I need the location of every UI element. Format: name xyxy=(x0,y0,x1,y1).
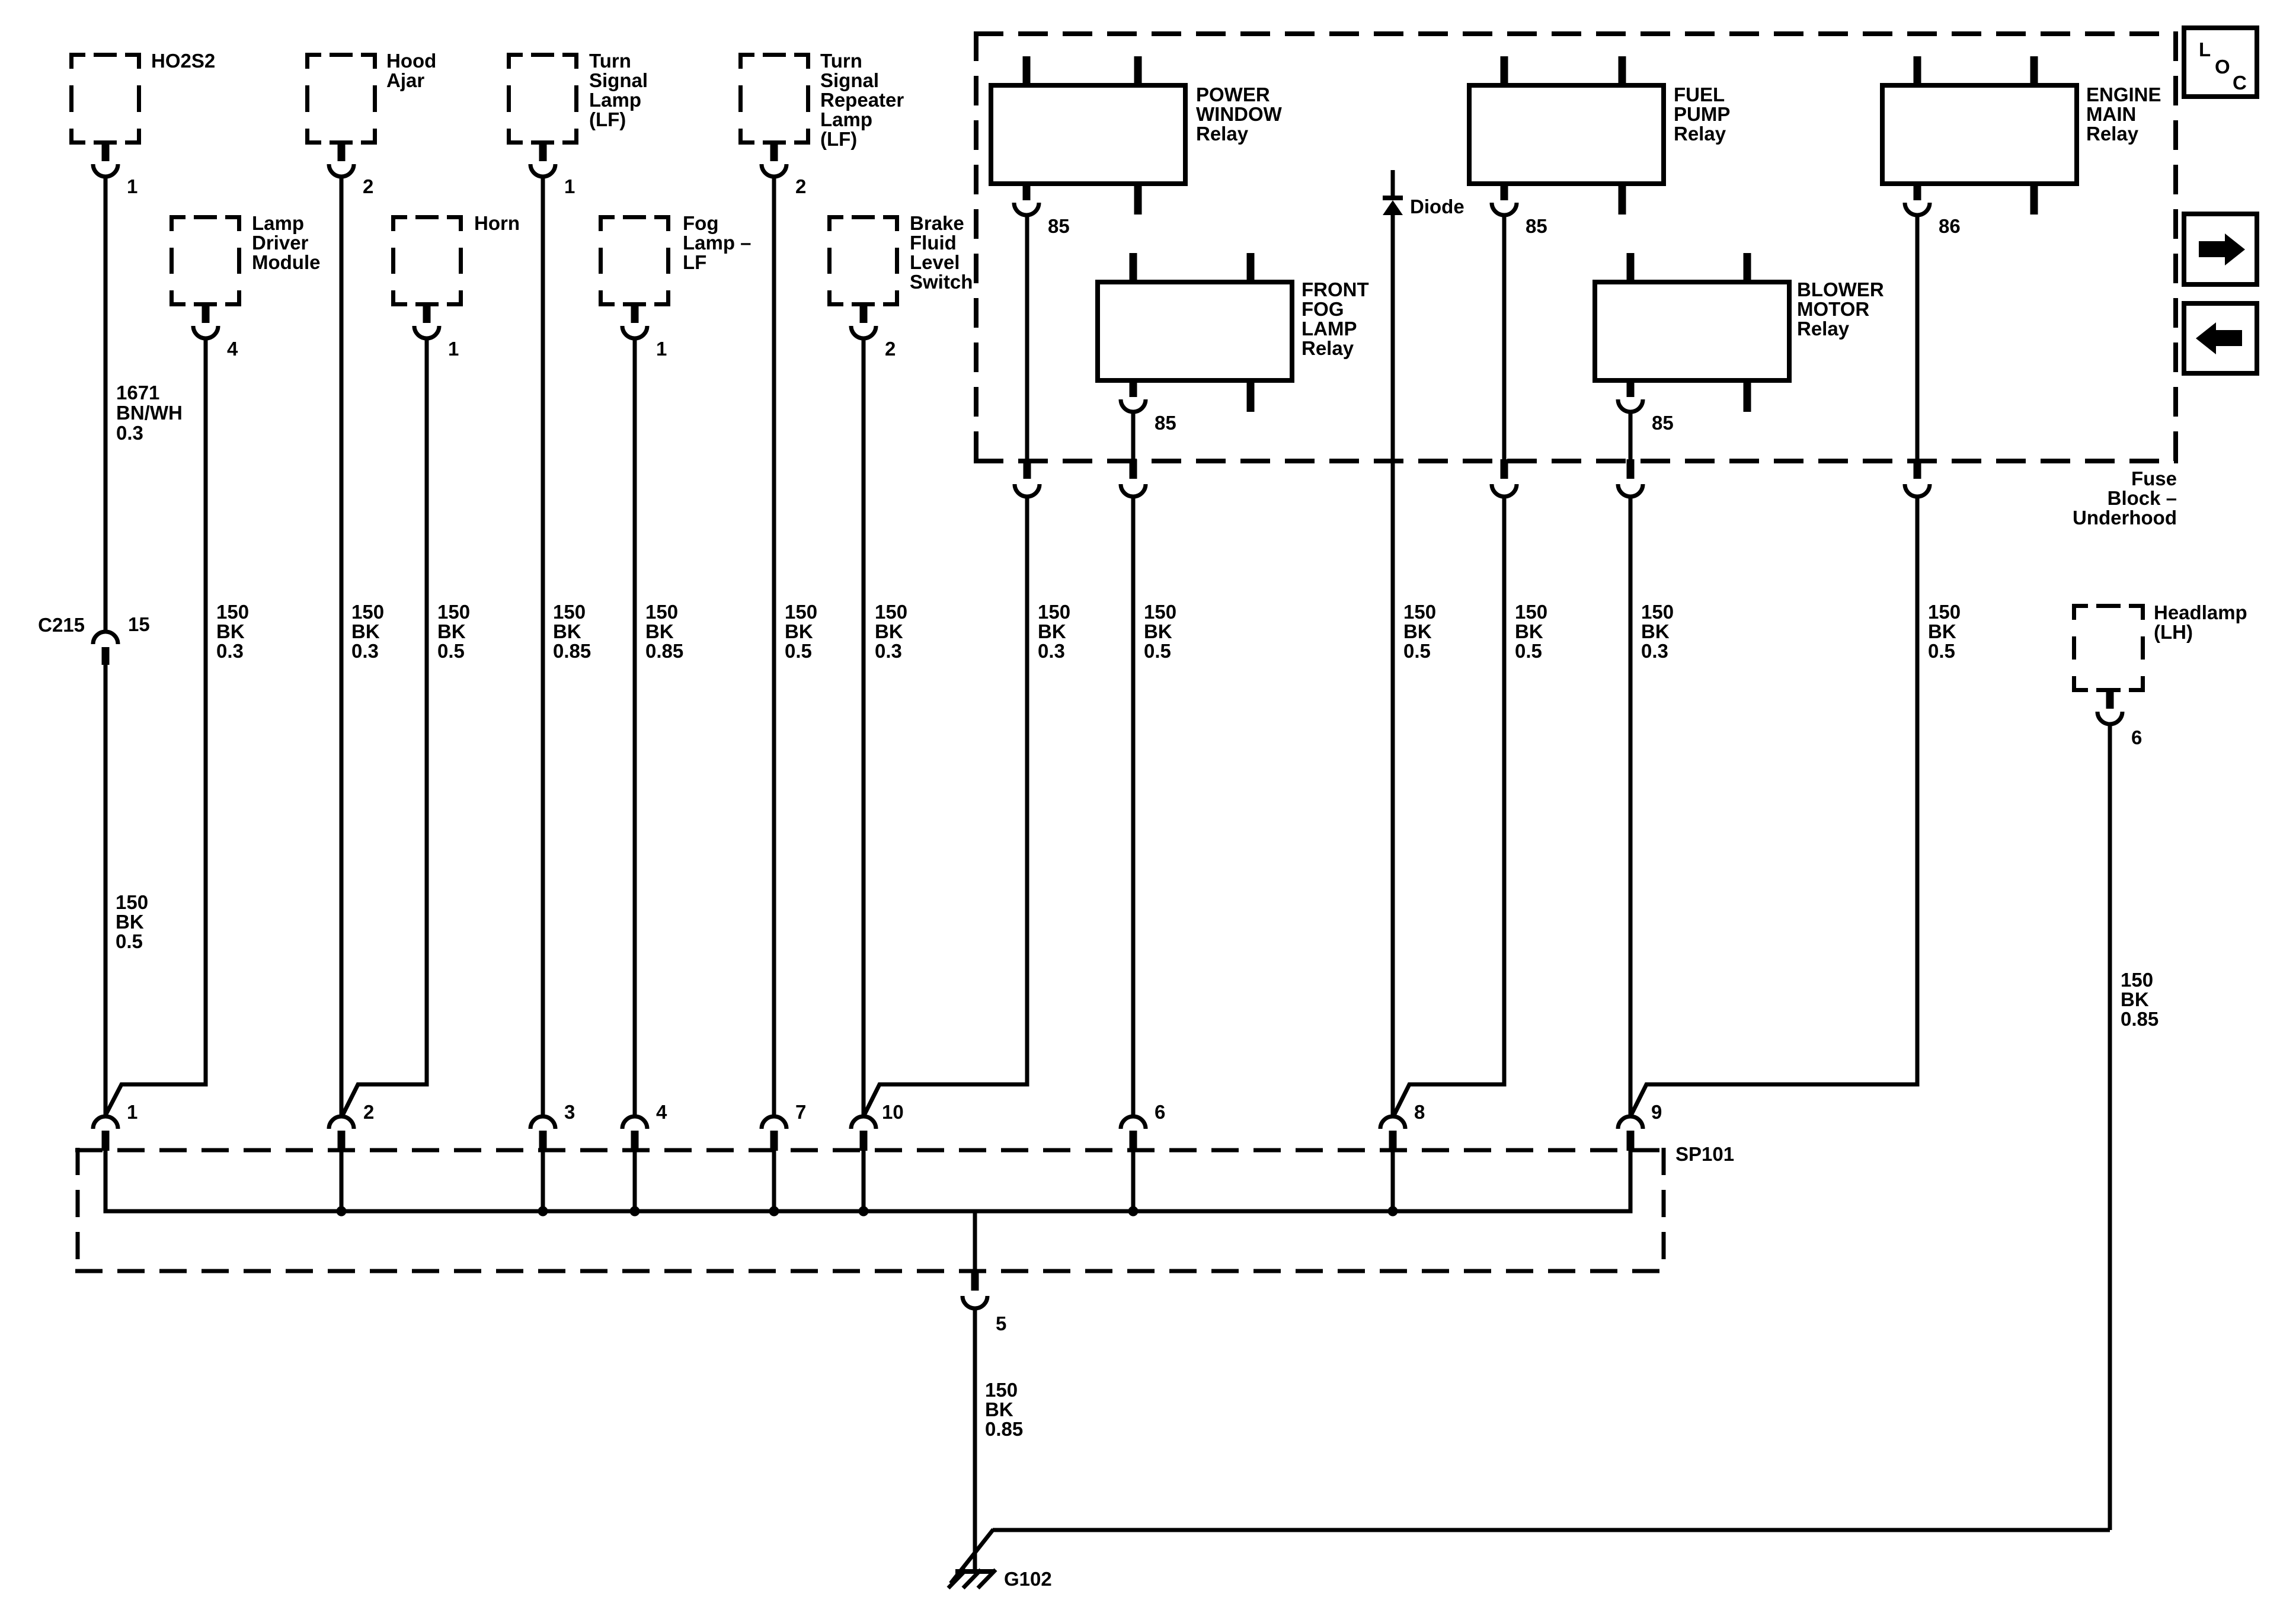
svg-text:Headlamp: Headlamp xyxy=(2154,601,2247,623)
svg-text:Level: Level xyxy=(910,251,960,273)
bus junction at x=1071 xyxy=(630,1206,640,1217)
svg-text:Lamp: Lamp xyxy=(820,108,872,130)
svg-text:MOTOR: MOTOR xyxy=(1797,298,1869,320)
connector Turn Signal Lamp (LF) xyxy=(507,50,648,197)
svg-text:BK: BK xyxy=(1641,620,1670,642)
svg-text:1: 1 xyxy=(564,175,575,197)
svg-text:1: 1 xyxy=(127,1101,137,1123)
label wire 150 BK 0.3 (Brake Fluid) xyxy=(875,601,907,662)
svg-text:Relay: Relay xyxy=(2086,123,2139,145)
svg-text:Fog: Fog xyxy=(683,212,718,234)
label wire 150 BK 0.5 (Fuel Pump relay) xyxy=(1515,601,1547,662)
svg-text:10: 10 xyxy=(882,1101,904,1123)
svg-text:Driver: Driver xyxy=(252,232,309,254)
svg-text:150: 150 xyxy=(785,601,817,623)
SP101 pin 1 xyxy=(93,1101,137,1211)
svg-text:BK: BK xyxy=(351,620,380,642)
svg-text:Ajar: Ajar xyxy=(386,69,424,91)
connector Horn xyxy=(391,212,520,360)
relay K1 POWER WINDOW Relay xyxy=(991,56,1283,237)
wire 150 BK 0.3 from Brake Fluid Level Switch pin 2 to SP101 pin 10 xyxy=(862,338,866,1116)
svg-text:FUEL: FUEL xyxy=(1674,84,1725,105)
svg-text:150: 150 xyxy=(645,601,678,623)
svg-text:1: 1 xyxy=(448,338,459,360)
label wire 150 BK 0.5 (TS Repeater) xyxy=(785,601,817,662)
SP101 pin 5 drop xyxy=(962,1211,1006,1334)
svg-text:4: 4 xyxy=(227,338,238,360)
SP101 pin 7 xyxy=(762,1101,806,1211)
svg-text:Fuse: Fuse xyxy=(2131,468,2177,489)
svg-text:BK: BK xyxy=(2121,988,2149,1010)
label wire 150 BK 0.3 (Hood Ajar) xyxy=(351,601,384,662)
wire 150 BK 0.85 from SP101 pin 5 to G102 xyxy=(973,1308,977,1570)
relay K4 FRONT FOG LAMP Relay xyxy=(1098,253,1369,434)
connector HO2S2 xyxy=(69,50,215,197)
svg-text:BK: BK xyxy=(1144,620,1172,642)
svg-text:Fluid: Fluid xyxy=(910,232,957,254)
label wire 150 BK 0.85 (Headlamp) xyxy=(2121,969,2159,1030)
svg-text:BK: BK xyxy=(1515,620,1543,642)
label SP101 xyxy=(1675,1143,1734,1165)
ground G102 xyxy=(948,1568,1052,1590)
svg-text:150: 150 xyxy=(1403,601,1436,623)
svg-text:Module: Module xyxy=(252,251,320,273)
connector C215 pin 15 xyxy=(38,613,150,665)
svg-text:FRONT: FRONT xyxy=(1302,279,1369,300)
svg-text:LAMP: LAMP xyxy=(1302,318,1357,340)
svg-text:5: 5 xyxy=(996,1313,1006,1334)
bus junction at x=1912 xyxy=(1128,1206,1139,1217)
svg-text:Signal: Signal xyxy=(820,69,879,91)
svg-text:4: 4 xyxy=(656,1101,667,1123)
svg-text:0.3: 0.3 xyxy=(875,640,902,662)
svg-text:0.3: 0.3 xyxy=(1038,640,1065,662)
svg-text:Switch: Switch xyxy=(910,271,973,293)
label wire 150 BK 0.3 (PW relay) xyxy=(1038,601,1070,662)
svg-text:FOG: FOG xyxy=(1302,298,1344,320)
wire 150 BK 0.85 from Headlamp pin 6 to G102 xyxy=(951,724,2110,1583)
svg-text:0.5: 0.5 xyxy=(116,930,143,952)
svg-text:9: 9 xyxy=(1651,1101,1662,1123)
svg-text:BK: BK xyxy=(553,620,581,642)
SP101 pin 10 xyxy=(851,1101,904,1211)
svg-text:Lamp: Lamp xyxy=(589,89,641,111)
svg-text:0.5: 0.5 xyxy=(785,640,812,662)
svg-text:7: 7 xyxy=(795,1101,806,1123)
svg-text:85: 85 xyxy=(1526,215,1547,237)
svg-text:150: 150 xyxy=(1641,601,1674,623)
connector Brake Fluid Level Switch xyxy=(827,212,973,360)
svg-text:150: 150 xyxy=(116,891,148,913)
svg-text:POWER: POWER xyxy=(1196,84,1270,105)
diode D1 xyxy=(1383,170,1464,217)
svg-text:Brake: Brake xyxy=(910,212,964,234)
svg-text:0.3: 0.3 xyxy=(1641,640,1668,662)
arrow box left xyxy=(2184,303,2257,373)
svg-text:Relay: Relay xyxy=(1797,318,1850,340)
label wire 150 BK 0.5 (HO2S2 branch) xyxy=(116,891,148,952)
svg-text:6: 6 xyxy=(2131,726,2142,748)
LOC legend box xyxy=(2184,28,2257,97)
wire 150 BK 0.5 from C215 to SP101 pin 1 xyxy=(104,665,108,1116)
svg-text:Hood: Hood xyxy=(386,50,436,72)
svg-text:C215: C215 xyxy=(38,614,85,636)
relay K3 ENGINE MAIN Relay xyxy=(1882,56,2161,237)
svg-text:BK: BK xyxy=(785,620,813,642)
svg-text:1671: 1671 xyxy=(116,382,159,404)
svg-text:6: 6 xyxy=(1155,1101,1165,1123)
wire 1671 BN/WH 0.3 from HO2S2 pin 1 xyxy=(104,177,108,632)
svg-text:BK: BK xyxy=(1403,620,1432,642)
wire 150 BK 0.3 from Hood Ajar pin 2 to SP101 pin 2 xyxy=(340,177,344,1116)
svg-text:150: 150 xyxy=(985,1379,1018,1401)
label wire 150 BK 0.5 (FFL relay) xyxy=(1144,601,1176,662)
svg-text:O: O xyxy=(2215,56,2230,78)
wire 150 BK 0.5 from diode to SP101 pin 8 xyxy=(1391,215,1395,1116)
svg-text:85: 85 xyxy=(1155,412,1176,434)
svg-text:Lamp –: Lamp – xyxy=(683,232,752,254)
label wire 1671 BN/WH 0.3 xyxy=(116,382,183,444)
svg-text:BK: BK xyxy=(985,1398,1013,1420)
label wire 150 BK 0.85 (Fog Lamp) xyxy=(645,601,683,662)
connector Fog Lamp - LF xyxy=(599,212,752,360)
svg-text:0.3: 0.3 xyxy=(216,640,244,662)
bus junction at x=576 xyxy=(337,1206,347,1217)
svg-text:Repeater: Repeater xyxy=(820,89,904,111)
svg-text:PUMP: PUMP xyxy=(1674,103,1730,125)
svg-text:150: 150 xyxy=(1144,601,1176,623)
svg-text:150: 150 xyxy=(553,601,586,623)
wire 150 BK 0.85 from Fog Lamp pin 1 to SP101 pin 4 xyxy=(633,338,637,1116)
svg-text:15: 15 xyxy=(128,613,150,635)
connector Hood Ajar xyxy=(305,50,436,197)
svg-text:BN/WH: BN/WH xyxy=(116,402,183,424)
svg-text:Block –: Block – xyxy=(2108,487,2177,509)
svg-text:2: 2 xyxy=(885,338,896,360)
connector Lamp Driver Module xyxy=(170,212,320,360)
label wire 150 BK 0.5 (Engine Main relay) xyxy=(1928,601,1961,662)
svg-text:0.85: 0.85 xyxy=(553,640,591,662)
SP101 pin 3 xyxy=(530,1101,575,1211)
svg-text:MAIN: MAIN xyxy=(2086,103,2136,125)
relay K2 FUEL PUMP Relay xyxy=(1469,56,1730,237)
svg-text:150: 150 xyxy=(1928,601,1961,623)
label wire 150 BK 0.5 (diode) xyxy=(1403,601,1436,662)
svg-text:150: 150 xyxy=(351,601,384,623)
svg-text:0.5: 0.5 xyxy=(1515,640,1542,662)
svg-text:BK: BK xyxy=(645,620,674,642)
svg-text:0.5: 0.5 xyxy=(1144,640,1171,662)
svg-text:Relay: Relay xyxy=(1196,123,1249,145)
SP101 pin 4 xyxy=(622,1101,667,1211)
label wire 150 BK 0.5 (Horn) xyxy=(437,601,470,662)
bus junction at x=2350 xyxy=(1388,1206,1398,1217)
splice pack SP101 dashed box xyxy=(75,1148,1666,1273)
svg-text:0.5: 0.5 xyxy=(1928,640,1955,662)
SP101 pin 9 xyxy=(1618,1101,1662,1211)
wire 150 BK 0.5 from Engine Main relay 86 to SP101 pin 9 xyxy=(1631,215,1930,1115)
SP101 pin 6 xyxy=(1121,1101,1165,1211)
svg-text:85: 85 xyxy=(1652,412,1674,434)
svg-text:BK: BK xyxy=(875,620,903,642)
svg-text:(LF): (LF) xyxy=(820,128,857,150)
svg-text:Signal: Signal xyxy=(589,69,648,91)
wire 150 BK 0.3 from Power Window relay 85 to SP101 pin 10 xyxy=(864,215,1040,1115)
bus junction at x=1457 xyxy=(859,1206,869,1217)
svg-text:WINDOW: WINDOW xyxy=(1196,103,1283,125)
svg-text:Turn: Turn xyxy=(820,50,862,72)
svg-text:1: 1 xyxy=(127,175,137,197)
svg-text:0.85: 0.85 xyxy=(645,640,683,662)
svg-text:(LH): (LH) xyxy=(2154,621,2193,643)
svg-text:0.5: 0.5 xyxy=(1403,640,1431,662)
label Fuse Block - Underhood xyxy=(2073,468,2177,529)
svg-text:86: 86 xyxy=(1939,215,1961,237)
svg-text:0.3: 0.3 xyxy=(116,422,143,444)
svg-text:Diode: Diode xyxy=(1410,196,1464,217)
connector Turn Signal Repeater Lamp (LF) xyxy=(738,50,904,197)
SP101 internal bus wire xyxy=(105,1209,1630,1211)
svg-text:Turn: Turn xyxy=(589,50,631,72)
svg-text:85: 85 xyxy=(1048,215,1070,237)
svg-text:BK: BK xyxy=(216,620,245,642)
svg-text:HO2S2: HO2S2 xyxy=(151,50,215,72)
svg-text:BK: BK xyxy=(1038,620,1066,642)
svg-text:0.5: 0.5 xyxy=(437,640,465,662)
svg-text:150: 150 xyxy=(437,601,470,623)
svg-text:1: 1 xyxy=(656,338,667,360)
wire 150 BK 0.3 from Blower Motor relay 85 to SP101 pin 9 xyxy=(1618,412,1643,1116)
wire 150 BK 0.5 from Front Fog Lamp relay 85 to SP101 pin 6 xyxy=(1121,412,1146,1116)
svg-text:SP101: SP101 xyxy=(1675,1143,1734,1165)
svg-text:G102: G102 xyxy=(1004,1568,1052,1590)
wire 150 BK 0.5 from Turn Signal Repeater pin 2 to SP101 pin 7 xyxy=(772,177,776,1116)
svg-text:150: 150 xyxy=(216,601,249,623)
arrow box right xyxy=(2184,214,2257,284)
label wire 150 BK 0.85 (TS Lamp) xyxy=(553,601,591,662)
svg-text:150: 150 xyxy=(1515,601,1547,623)
label wire 150 BK 0.3 (LDM) xyxy=(216,601,249,662)
SP101 pin 8 xyxy=(1380,1101,1425,1211)
svg-text:0.85: 0.85 xyxy=(985,1418,1023,1440)
fuse block border (Fuse Block - Underhood) xyxy=(974,31,2178,463)
wire 150 BK 0.85 from Turn Signal Lamp pin 1 to SP101 pin 3 xyxy=(541,177,545,1116)
bus junction at x=916 xyxy=(538,1206,548,1217)
svg-text:BK: BK xyxy=(116,911,144,933)
svg-text:(LF): (LF) xyxy=(589,108,626,130)
svg-text:BK: BK xyxy=(437,620,466,642)
svg-text:BK: BK xyxy=(1928,620,1956,642)
label wire 150 BK 0.3 (Blower relay) xyxy=(1641,601,1674,662)
svg-text:8: 8 xyxy=(1414,1101,1425,1123)
svg-text:L: L xyxy=(2199,39,2211,60)
svg-text:Horn: Horn xyxy=(474,212,520,234)
svg-text:LF: LF xyxy=(683,251,706,273)
svg-text:2: 2 xyxy=(363,1101,374,1123)
svg-text:3: 3 xyxy=(564,1101,575,1123)
svg-text:150: 150 xyxy=(2121,969,2153,991)
svg-text:C: C xyxy=(2233,72,2247,94)
svg-text:BLOWER: BLOWER xyxy=(1797,279,1884,300)
bus junction at x=1306 xyxy=(769,1206,779,1217)
label wire 150 BK 0.85 (ground lead) xyxy=(985,1379,1023,1440)
svg-text:Underhood: Underhood xyxy=(2073,507,2177,529)
svg-text:0.85: 0.85 xyxy=(2121,1008,2159,1030)
connector Headlamp (LH) xyxy=(2072,601,2247,748)
svg-text:Lamp: Lamp xyxy=(252,212,304,234)
svg-text:0.3: 0.3 xyxy=(351,640,379,662)
wire 150 BK 0.3 from Lamp Driver Module pin 4 to SP101 pin 1 xyxy=(105,338,206,1115)
svg-text:Relay: Relay xyxy=(1302,337,1354,359)
svg-text:150: 150 xyxy=(875,601,907,623)
svg-text:150: 150 xyxy=(1038,601,1070,623)
wire 150 BK 0.5 from Fuel Pump relay 85 to SP101 pin 8 xyxy=(1394,215,1517,1115)
relay K5 BLOWER MOTOR Relay xyxy=(1595,253,1884,434)
svg-text:Relay: Relay xyxy=(1674,123,1726,145)
SP101 pin 2 xyxy=(329,1101,374,1211)
wire 150 BK 0.5 from Horn pin 1 to SP101 pin 2 xyxy=(343,338,427,1115)
svg-text:2: 2 xyxy=(363,175,373,197)
svg-text:2: 2 xyxy=(795,175,806,197)
svg-text:ENGINE: ENGINE xyxy=(2086,84,2161,105)
